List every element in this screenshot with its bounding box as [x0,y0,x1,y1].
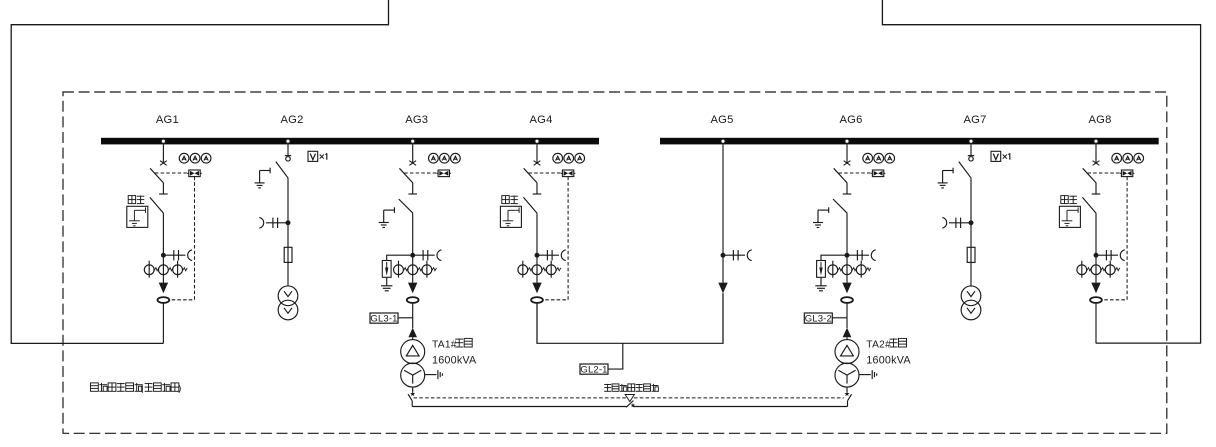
LV tie wire left [412,406,626,408]
dashed motor link AG6 [839,172,871,174]
earthing disconnector blade AG6 [833,199,847,213]
svg-text:TA2#: TA2# [866,339,891,350]
arrester earth AG6 [815,277,826,291]
contact ring AG2 [286,157,291,162]
earthing disconnector blade AG1 [150,197,164,213]
live-line voltage indicator AG7 [942,217,971,228]
wire AG2 drop from busbar [287,144,289,155]
svg-text:AG4: AG4 [530,114,553,126]
dashed motor link AG3 [404,172,436,174]
CT ring middle AG8 [1091,265,1106,275]
svg-text:GL3-2: GL3-2 [805,314,832,325]
motor operator AG1 [187,170,202,177]
CT ring right AG3 [422,261,437,278]
wire AG3 main drop [412,213,414,283]
wire AG1 switch stem [162,183,164,194]
CT ring middle AG1 [159,265,174,275]
cable termination (pointing down) AG1 [159,283,168,294]
disconnector blade AG7 [959,162,971,179]
wire AG6 drop from busbar [846,144,848,162]
svg-text:AG7: AG7 [964,114,987,126]
motor operator AG6 [871,170,886,177]
svg-text:1600kVA: 1600kVA [866,355,911,367]
svg-text:AG5: AG5 [711,114,734,126]
wire AG5 cable [722,293,724,343]
lower contact tick AG6 [843,193,852,195]
CT ring middle AG4 [532,265,547,275]
junction AG4 [535,253,539,257]
cable termination (pointing down) AG4 [532,283,541,294]
svg-text:AG3: AG3 [405,114,428,126]
LV breaker TA1 [408,387,415,406]
label 手球馆变电所(本期新建) [91,383,182,393]
zero-sequence CT ring AG4 [531,297,543,303]
ammeters A A A AG1 [179,153,211,163]
LV breaker TA2 [844,387,851,406]
load switch blade AG8 [1083,168,1097,183]
lower contact tick AG1 [159,193,168,195]
wire AG6 switch stem [846,183,848,194]
lower contact tick AG8 [1092,193,1101,195]
earthing disconnector blade AG8 [1082,197,1096,213]
svg-text:AG2: AG2 [281,114,304,126]
svg-text:(: ( [140,383,143,393]
transformer TA1 wye winding [401,363,425,387]
voltage transformer AG7 [961,286,981,320]
wire AG5 drop from busbar [722,144,724,283]
wire AG7 drop from busbar [970,144,972,155]
wire AG6 short link [846,337,848,339]
junction AG2 [286,221,290,225]
zero-sequence CT ring AG1 [158,297,170,303]
dashed motor link AG1 [155,172,187,174]
live-line voltage indicator AG3 [413,250,442,261]
CT ring left AG6 [828,261,843,278]
CT ring left AG8 [1077,261,1092,278]
neutral earthing TA1 [425,370,443,379]
neutral earthing TA2 [859,370,877,379]
svg-text:GL2-1: GL2-1 [580,365,607,376]
wire AG8 switch stem [1095,183,1097,194]
load switch blade AG6 [834,168,848,183]
svg-text:GL3-1: GL3-1 [370,314,397,325]
live-line voltage indicator AG8 [1096,250,1125,261]
transformer TA2 wye winding [835,363,859,387]
CT ring left AG4 [518,261,533,278]
junction AG1 [162,253,166,257]
wire AG1 cable [162,303,164,344]
transformer TA1 delta winding [401,340,425,364]
breaker fixed contact marker AG6 [844,161,851,166]
wire AG3 switch stem [412,183,414,194]
junction AG8 [1094,253,1098,257]
junction AG5 [721,253,725,257]
contact ring AG7 [969,157,974,162]
earthing switch AG6 [813,207,829,227]
node AG7 bus tap [969,139,973,143]
wire incoming overhead line 2 (top-right) [882,0,1200,343]
label TA2#配变 [866,338,906,350]
wire AG4 switch stem [536,183,538,194]
load switch blade AG1 [150,168,164,183]
fuse AG2 [284,247,292,262]
svg-text:): ) [178,383,181,393]
zero-sequence CT ring AG6 [841,297,853,303]
busbar section II [660,138,1159,145]
CT ring left AG1 [144,261,159,278]
wire AG1 main drop [162,213,164,282]
cable termination (pointing down) AG6 [842,283,851,294]
padlock legend 加锁 AG4 [500,196,521,228]
wire AG1 drop from busbar [162,144,164,162]
CT ring middle AG6 [842,265,857,275]
wire AG3 short link [412,337,414,339]
surge arrester AG6 [817,255,847,277]
live-line voltage indicator AG6 [847,250,876,261]
wire AG2 main drop [287,178,289,286]
node AG8 bus tap [1094,139,1098,143]
wire incoming overhead line 1 (top-left) [11,0,388,343]
label 三锁两钥匙联锁 [604,384,658,391]
ammeters A A A AG8 [1112,153,1144,163]
wire AG8 main drop [1095,213,1097,282]
fixed contact tick AG7 [968,155,974,157]
fuse AG7 [967,247,975,262]
earthing disconnector blade AG4 [523,197,537,213]
CT ring right AG6 [856,261,871,278]
earthing switch AG3 [379,207,395,227]
voltmeter legend [V]x1 AG7 [991,151,1010,161]
wire AG8 cable [1095,303,1097,344]
wire AG6 main drop [846,213,848,283]
live-line voltage indicator AG4 [537,250,566,261]
tie normally-open indicator [625,395,635,408]
live-line voltage indicator AG5 [723,250,752,261]
earthing switch AG7 [938,168,954,188]
svg-text:1600kVA: 1600kVA [432,355,477,367]
cable termination (pointing down) AG5 [718,283,727,294]
dashed interlock link AG4 [543,177,568,300]
wire AG8 drop from busbar [1095,144,1097,162]
CT ring right AG1 [173,261,187,278]
cable termination (pointing down) AG3 [408,283,417,294]
wire AG6 to transformer [846,303,848,328]
CT ring middle AG3 [408,265,422,275]
node AG6 bus tap [845,139,849,143]
load switch blade AG4 [524,168,538,183]
CT ring right AG8 [1105,261,1120,278]
breaker fixed contact marker AG1 [160,161,167,166]
arrester earth AG3 [381,277,392,291]
fixed contact tick AG2 [285,155,291,157]
padlock legend 加锁 AG1 [127,196,148,228]
node AG3 bus tap [411,139,415,143]
live-line voltage indicator AG1 [163,250,192,261]
CT ring right AG4 [546,261,561,278]
busbar section I [101,138,599,145]
motor operator AG8 [1120,170,1135,177]
lower contact tick AG4 [533,193,542,195]
lower contact tick AG3 [408,193,417,195]
voltage transformer AG2 [278,286,298,320]
node AG2 bus tap [286,139,290,143]
junction AG6 [845,253,849,257]
label TA1#配变 [432,338,472,350]
node AG1 bus tap [161,139,165,143]
cable termination (pointing up) AG6 [843,328,852,338]
zero-sequence CT ring AG3 [407,297,419,303]
load switch blade AG3 [399,168,413,183]
ammeters A A A AG3 [429,153,461,163]
dashed motor link AG8 [1088,172,1120,174]
breaker fixed contact marker AG8 [1093,161,1100,166]
wire cable AG4 to AG5 [537,293,723,343]
breaker fixed contact marker AG3 [409,161,416,166]
disconnector blade AG2 [276,162,288,179]
wire AG3 drop from busbar [412,144,414,162]
LV tie wire right [633,406,848,408]
dashed interlock link AG8 [1102,177,1127,300]
earthing switch AG2 [255,168,271,188]
wire AG4 drop from busbar [536,144,538,162]
wire AG4 main drop [536,213,538,282]
ammeters A A A AG4 [553,153,585,163]
cable termination (pointing down) AG8 [1091,283,1100,294]
zero-sequence CT ring AG8 [1090,297,1102,303]
svg-text:AG6: AG6 [840,114,863,126]
CT ring left AG3 [394,261,409,278]
svg-text:AG8: AG8 [1089,114,1112,126]
live-line voltage indicator AG2 [259,217,288,228]
cable termination (pointing up) AG3 [408,328,417,338]
junction AG7 [969,221,973,225]
wire AG4 cable [536,303,538,344]
dashed motor link AG4 [529,172,561,174]
cable tag GL3-2 [804,313,847,325]
wire AG7 main drop [970,178,972,286]
wire AG3 to transformer [412,303,414,328]
dashed interlock TA1-TA2 [414,397,844,399]
earthing disconnector blade AG3 [399,199,413,213]
surge arrester AG3 [382,255,412,277]
junction AG3 [411,253,415,257]
cable tag GL2-1 [580,343,623,375]
station boundary (dashed) [63,92,1167,433]
motor operator AG3 [437,170,452,177]
voltmeter legend [V]x1 AG2 [308,151,327,161]
node AG4 bus tap [535,139,539,143]
transformer TA2 delta winding [835,340,859,364]
node AG5 bus tap [721,139,725,143]
ammeters A A A AG6 [863,153,895,163]
dashed interlock link AG1 [170,177,195,300]
svg-text:AG1: AG1 [156,114,179,126]
svg-text:TA1#: TA1# [432,339,457,350]
breaker fixed contact marker AG4 [534,161,541,166]
padlock legend 加锁 AG8 [1059,196,1080,228]
cable tag GL3-1 [370,313,413,325]
motor operator AG4 [561,170,576,177]
